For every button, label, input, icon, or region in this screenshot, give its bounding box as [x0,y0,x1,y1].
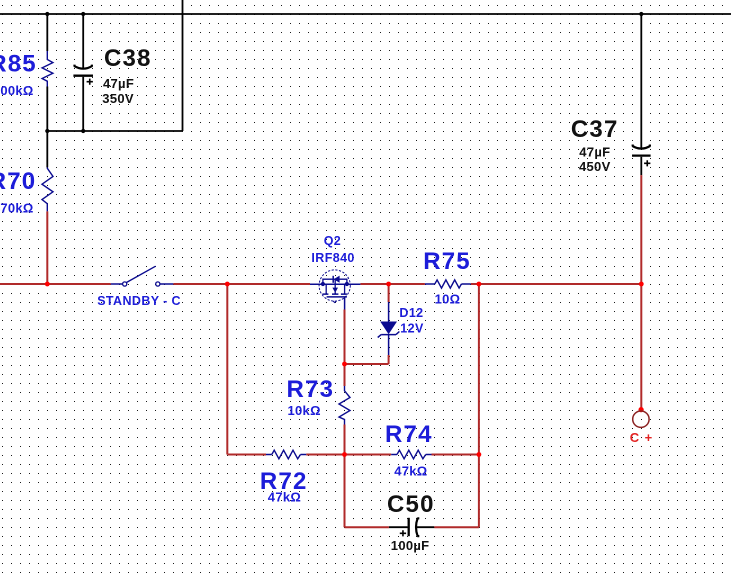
node junction dots red [45,282,644,457]
svg-text:D12: D12 [399,306,423,320]
svg-text:47µF: 47µF [579,144,610,159]
node junction dots black top bus [45,12,643,133]
svg-text:R74: R74 [385,421,433,448]
transistor Q2 IRF840 [310,234,360,310]
connector C+ [630,284,653,445]
diode D12 (zener 12V) [378,284,424,364]
svg-text:470kΩ: 470kΩ [0,200,34,215]
svg-text:10Ω: 10Ω [435,291,461,306]
svg-text:100kΩ: 100kΩ [0,83,34,98]
capacitor C37 [571,14,651,175]
svg-text:47µF: 47µF [103,76,134,91]
wire Q2 gate lead down (red) [344,310,346,365]
svg-text:STANDBY - C: STANDBY - C [97,294,181,308]
wire C37 lower (red) [640,175,642,284]
resistor R70 [0,131,53,284]
resistor R72 [260,450,308,504]
wire right drop x=478.9 (red) [478,284,480,527]
svg-text:R75: R75 [423,248,471,275]
svg-text:R73: R73 [287,376,335,403]
wire lower rail y=454.5 (red) [227,454,479,456]
wire left drop x=227.3 (red) [226,284,228,455]
wire vertical feed x=182.5 [182,0,184,131]
wire main rail y=284 (red) [0,283,641,285]
wire lower black bus y=130 [47,130,182,132]
svg-text:100µF: 100µF [391,538,430,553]
resistor R74 [385,421,433,479]
svg-text:350V: 350V [102,91,134,106]
svg-text:R85: R85 [0,50,37,77]
svg-text:10kΩ: 10kΩ [288,403,321,418]
capacitor C38 [73,14,151,131]
switch STANDBY-C [97,266,181,308]
svg-text:R70: R70 [0,168,36,195]
svg-text:C37: C37 [571,116,619,143]
svg-text:47kΩ: 47kΩ [394,463,427,478]
resistor R73 [287,364,351,527]
svg-text:12V: 12V [400,322,424,336]
svg-text:47kΩ: 47kΩ [268,490,301,505]
wire D12 to Q2 node (red) [345,363,389,365]
svg-text:C38: C38 [104,45,152,72]
svg-text:C +: C + [630,430,653,445]
svg-text:C50: C50 [387,491,435,518]
resistor R75 [423,248,471,307]
wire C50 bottom rail (red) [345,526,479,528]
resistor R85 [0,14,53,131]
svg-text:450V: 450V [579,159,611,174]
capacitor C50 [387,491,435,553]
wire top bus (black) [0,13,731,15]
svg-text:Q2: Q2 [324,234,341,248]
svg-text:IRF840: IRF840 [311,251,354,265]
